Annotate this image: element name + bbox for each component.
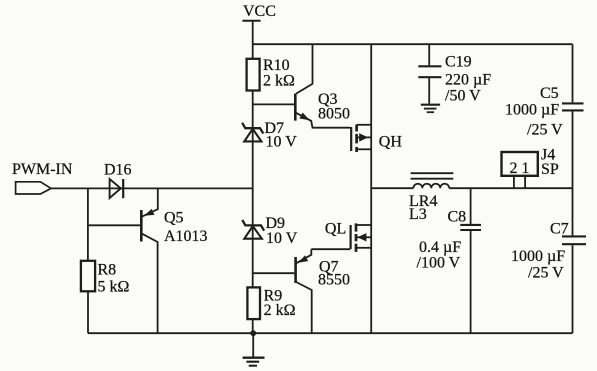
svg-text:5 kΩ: 5 kΩ [98,278,130,295]
svg-text:SP: SP [541,161,559,178]
svg-text:L3: L3 [409,206,427,223]
svg-text:220 µF: 220 µF [445,72,491,89]
svg-text:1000 µF: 1000 µF [511,248,565,265]
svg-text:A1013: A1013 [164,228,208,245]
svg-text:/100 V: /100 V [417,254,461,271]
svg-text:C7: C7 [550,221,569,238]
svg-text:C19: C19 [445,54,472,71]
svg-text:C5: C5 [540,85,559,102]
svg-text:VCC: VCC [243,3,276,20]
svg-text:8550: 8550 [318,272,350,289]
svg-text:QL: QL [325,220,346,237]
svg-text:10 V: 10 V [266,230,298,247]
svg-text:QH: QH [379,133,403,150]
svg-text:Q5: Q5 [164,210,184,227]
svg-text:1000 µF: 1000 µF [505,102,559,119]
svg-text:C8: C8 [448,209,467,226]
svg-text:D16: D16 [104,162,132,179]
svg-text:/50 V: /50 V [445,87,481,104]
svg-text:10 V: 10 V [266,134,298,151]
svg-text:1: 1 [522,160,530,177]
svg-text:R10: R10 [263,57,290,74]
svg-text:PWM-IN: PWM-IN [12,161,73,178]
svg-text:R8: R8 [98,262,117,279]
svg-text:2 kΩ: 2 kΩ [264,302,296,319]
svg-text:2 kΩ: 2 kΩ [263,73,295,90]
svg-text:8050: 8050 [318,106,350,123]
svg-text:/25 V: /25 V [527,122,563,139]
svg-text:2: 2 [510,160,518,177]
svg-text:/25 V: /25 V [528,265,564,282]
